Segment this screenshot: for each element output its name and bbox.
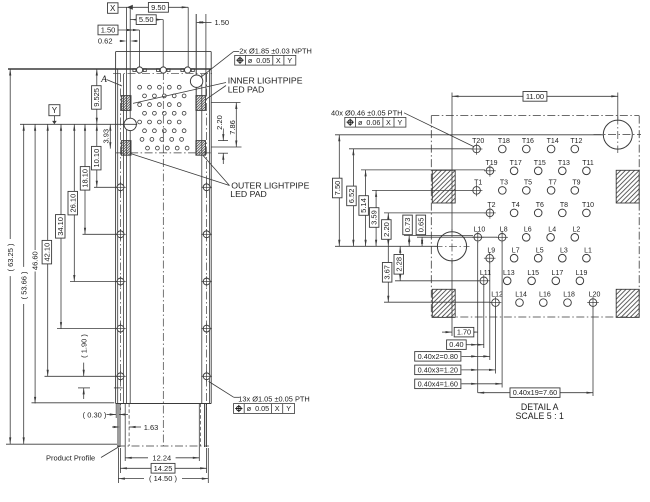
svg-text:L19: L19 (576, 270, 588, 277)
svg-text:( 63.25 ): ( 63.25 ) (6, 243, 15, 271)
svg-text:42.10: 42.10 (42, 243, 51, 262)
svg-text:Product Profile: Product Profile (46, 454, 95, 463)
svg-text:0.62: 0.62 (98, 37, 113, 46)
svg-text:L13: L13 (503, 270, 515, 277)
svg-text:2.20: 2.20 (215, 115, 224, 130)
svg-text:40x Ø0.46 ±0.05 PTH: 40x Ø0.46 ±0.05 PTH (331, 108, 402, 117)
svg-text:L4: L4 (548, 226, 556, 233)
svg-text:2x Ø1.85 ±0.03 NPTH: 2x Ø1.85 ±0.03 NPTH (239, 46, 312, 55)
svg-text:X: X (110, 4, 116, 13)
svg-text:7.86: 7.86 (228, 120, 237, 135)
svg-text:( 14.50 ): ( 14.50 ) (149, 474, 177, 483)
svg-text:L10: L10 (474, 226, 486, 233)
svg-text:L14: L14 (515, 292, 527, 299)
svg-text:T16: T16 (522, 138, 534, 145)
svg-text:0.73: 0.73 (403, 218, 412, 233)
svg-text:ø 0.06: ø 0.06 (358, 118, 380, 127)
svg-text:Y: Y (52, 106, 58, 115)
svg-text:T11: T11 (582, 160, 594, 167)
svg-text:10.10: 10.10 (92, 149, 101, 168)
svg-text:18.10: 18.10 (81, 169, 90, 188)
svg-text:3.67: 3.67 (383, 265, 392, 280)
svg-text:1.50: 1.50 (215, 18, 230, 27)
svg-text:0.65: 0.65 (416, 218, 425, 233)
svg-text:1.63: 1.63 (144, 423, 159, 432)
svg-text:9.525: 9.525 (92, 88, 101, 107)
svg-text:T1: T1 (474, 180, 482, 187)
svg-text:L11: L11 (480, 270, 491, 277)
svg-text:T13: T13 (558, 160, 570, 167)
svg-text:L8: L8 (500, 226, 508, 233)
svg-text:X: X (276, 56, 281, 65)
svg-text:34.10: 34.10 (56, 217, 65, 236)
svg-text:0.40x19=7.60: 0.40x19=7.60 (513, 388, 557, 397)
svg-text:X: X (386, 118, 391, 127)
svg-text:9.50: 9.50 (151, 3, 166, 12)
svg-text:SCALE 5 : 1: SCALE 5 : 1 (515, 411, 564, 421)
svg-text:L18: L18 (563, 292, 575, 299)
svg-text:T20: T20 (472, 138, 484, 145)
svg-text:3.59: 3.59 (370, 210, 379, 225)
svg-text:5.14: 5.14 (359, 198, 368, 213)
svg-text:ø 0.05: ø 0.05 (247, 404, 269, 413)
svg-text:L1: L1 (584, 247, 592, 254)
svg-text:( 0.30 ): ( 0.30 ) (83, 411, 107, 420)
svg-text:26.10: 26.10 (68, 194, 77, 213)
svg-text:T4: T4 (512, 202, 520, 209)
svg-text:6.52: 6.52 (347, 189, 356, 204)
svg-text:L7: L7 (512, 247, 520, 254)
svg-text:( 53.66 ): ( 53.66 ) (19, 271, 28, 299)
svg-text:T15: T15 (534, 160, 546, 167)
svg-text:2.28: 2.28 (394, 257, 403, 272)
svg-text:T2: T2 (487, 202, 495, 209)
svg-text:0.40x4=1.60: 0.40x4=1.60 (418, 379, 458, 388)
svg-text:T12: T12 (570, 138, 582, 145)
svg-text:1.50: 1.50 (101, 26, 116, 35)
svg-text:0.40: 0.40 (449, 340, 463, 349)
svg-text:ø 0.05: ø 0.05 (248, 56, 270, 65)
svg-text:T18: T18 (498, 138, 510, 145)
svg-text:Y: Y (287, 56, 292, 65)
svg-text:X: X (275, 404, 280, 413)
svg-text:T5: T5 (524, 180, 532, 187)
svg-text:L2: L2 (573, 226, 581, 233)
svg-text:L9: L9 (487, 247, 495, 254)
svg-text:A: A (100, 75, 107, 85)
svg-text:T9: T9 (572, 180, 580, 187)
svg-text:5.50: 5.50 (139, 15, 154, 24)
svg-text:L5: L5 (536, 247, 544, 254)
svg-text:0.40x3=1.20: 0.40x3=1.20 (418, 365, 458, 374)
svg-text:T3: T3 (500, 180, 508, 187)
svg-text:0.40x2=0.80: 0.40x2=0.80 (418, 352, 458, 361)
svg-text:L15: L15 (527, 270, 539, 277)
svg-text:14.25: 14.25 (154, 464, 173, 473)
svg-text:1.70: 1.70 (457, 328, 471, 337)
svg-text:T14: T14 (547, 138, 559, 145)
svg-text:L20: L20 (589, 292, 601, 299)
svg-text:LED PAD: LED PAD (228, 84, 265, 94)
svg-text:L17: L17 (552, 270, 564, 277)
svg-text:T19: T19 (485, 160, 497, 167)
svg-text:2.20: 2.20 (382, 222, 391, 237)
svg-text:3.93: 3.93 (102, 129, 111, 144)
svg-text:T17: T17 (510, 160, 522, 167)
svg-text:( 1.90 ): ( 1.90 ) (79, 334, 88, 358)
svg-text:L12: L12 (491, 292, 503, 299)
svg-text:T6: T6 (536, 202, 544, 209)
svg-text:11.00: 11.00 (526, 92, 544, 101)
svg-text:T8: T8 (560, 202, 568, 209)
svg-text:L3: L3 (560, 247, 568, 254)
svg-text:Y: Y (398, 118, 403, 127)
svg-text:L6: L6 (524, 226, 532, 233)
svg-text:LED PAD: LED PAD (230, 189, 267, 199)
svg-text:46.60: 46.60 (30, 251, 39, 270)
svg-text:L16: L16 (539, 292, 551, 299)
svg-text:T10: T10 (582, 202, 594, 209)
svg-text:13x Ø1.05 ±0.05 PTH: 13x Ø1.05 ±0.05 PTH (238, 394, 309, 403)
svg-text:12.24: 12.24 (152, 453, 171, 462)
svg-text:T7: T7 (549, 180, 557, 187)
svg-text:7.50: 7.50 (333, 181, 342, 196)
svg-text:Y: Y (286, 404, 291, 413)
